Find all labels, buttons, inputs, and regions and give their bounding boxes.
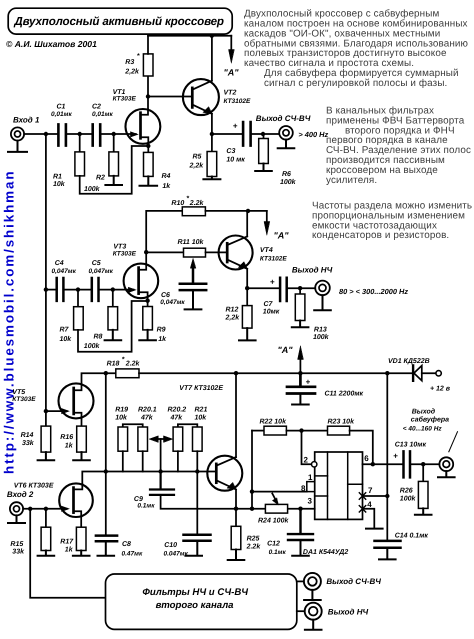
svg-text:10k: 10k: [115, 413, 128, 421]
input connector Вход 2: [7, 490, 34, 515]
svg-text:C12: C12: [267, 540, 280, 547]
wire VT3 drain to R11: [146, 251, 183, 253]
wire R11 to VT4 base: [206, 251, 226, 253]
output connector Выход СЧ-ВЧ: [256, 114, 329, 140]
svg-text:6: 6: [364, 454, 369, 463]
supply rail bottom: [139, 372, 413, 374]
wire pin8 to R22 drop: [252, 491, 307, 493]
resistor R7: [60, 290, 84, 343]
capacitor C14: [375, 533, 429, 548]
svg-text:7: 7: [368, 486, 373, 495]
transistor VT7: [207, 456, 242, 491]
ground under R26: [415, 508, 432, 514]
pin 4 power: [359, 500, 374, 528]
ground under R8: [105, 330, 122, 340]
svg-text:0,01мк: 0,01мк: [92, 111, 113, 118]
svg-text:C5: C5: [92, 260, 101, 267]
svg-text:+: +: [306, 378, 311, 387]
svg-text:C6: C6: [161, 292, 170, 299]
ground under сабвуфер: [438, 471, 455, 477]
transistor VT6: [14, 482, 93, 517]
potentiometer R24: [258, 494, 289, 525]
resistor R4: [144, 152, 172, 189]
svg-text:C3: C3: [226, 148, 235, 155]
svg-text:47k: 47k: [170, 413, 184, 421]
svg-text:R11 10k: R11 10k: [178, 238, 205, 246]
node R26 top: [421, 462, 425, 466]
svg-text:2.2k: 2.2k: [189, 199, 205, 207]
ground under input 1: [8, 141, 27, 152]
svg-text:Двухполосный активный кроссове: Двухполосный активный кроссовер: [13, 15, 224, 28]
wire base to VT7: [197, 471, 216, 473]
resistor R2: [84, 134, 119, 193]
svg-text:1: 1: [308, 473, 313, 482]
ground under R15: [38, 551, 55, 556]
node VT7 collector rail: [234, 371, 238, 375]
node A flag mid: [264, 211, 289, 240]
svg-text:R21: R21: [195, 407, 208, 414]
node pin6 feedback: [371, 462, 375, 466]
resistor R22: [252, 418, 287, 435]
svg-text:R12: R12: [226, 307, 239, 314]
resistor R13: [295, 288, 329, 341]
svg-text:сабвуфера: сабвуфера: [411, 416, 449, 424]
svg-text:C4: C4: [55, 260, 64, 267]
pin 7 power: [359, 486, 387, 499]
resistor R18: [107, 357, 141, 378]
svg-text:2.2k: 2.2k: [246, 542, 262, 550]
wiper double arrow R20: [149, 436, 172, 472]
capacitor C1: [51, 104, 72, 146]
transistor VT1: [113, 89, 161, 144]
resistor R3: [124, 36, 153, 97]
svg-text:VT7 КТ3102Е: VT7 КТ3102Е: [179, 385, 223, 392]
node R8 top: [111, 287, 115, 291]
svg-text:R4: R4: [162, 173, 171, 180]
label VT7: [179, 385, 223, 392]
node pin7: [385, 494, 389, 498]
wire input1 to C1: [24, 133, 57, 135]
svg-text:Выход НЧ: Выход НЧ: [328, 608, 369, 617]
svg-text:C1: C1: [57, 104, 66, 111]
svg-text:© А.И. Шихатов 2001: © А.И. Шихатов 2001: [6, 39, 97, 49]
wire VT5 source down: [81, 419, 83, 427]
node VT3 drain: [144, 250, 148, 254]
node stage2 branch: [44, 287, 48, 291]
input connector Вход 1: [11, 116, 40, 141]
svg-text:"А": "А": [224, 68, 240, 78]
svg-text:2: 2: [304, 456, 309, 465]
svg-text:1k: 1k: [65, 442, 74, 450]
node VT7 emitter: [234, 507, 238, 511]
svg-text:2,2k: 2,2k: [225, 313, 241, 321]
diode VD1: [388, 358, 436, 381]
svg-text:1k: 1k: [162, 182, 171, 190]
wire VT1 drain to VT2 base: [148, 96, 191, 98]
pins 1 8 strap: [301, 473, 315, 493]
wire R20.2 bottom: [177, 451, 179, 471]
svg-text:Выход: Выход: [412, 408, 436, 416]
wire input1 down to stage2: [45, 134, 47, 290]
node VT4 collector: [246, 209, 250, 213]
pin 6 output wire: [363, 454, 402, 464]
svg-text:0,01мк: 0,01мк: [51, 111, 72, 118]
ground under R9: [139, 330, 156, 340]
wire stage2 input: [46, 289, 56, 291]
wire VT2 collector up: [211, 36, 213, 81]
svg-text:Выход СЧ-ВЧ: Выход СЧ-ВЧ: [326, 577, 381, 586]
node VT2 collector top: [210, 34, 214, 38]
wire VT4 collector up: [246, 211, 248, 237]
svg-text:R17: R17: [60, 539, 74, 546]
svg-text:0.1мк: 0.1мк: [137, 503, 155, 510]
svg-text:R6: R6: [282, 171, 291, 178]
resistor R26: [400, 464, 428, 508]
wire R22 left drop: [251, 431, 253, 509]
svg-text:R23 10k: R23 10k: [328, 418, 356, 426]
svg-text:100k: 100k: [84, 185, 101, 193]
resistor R6: [259, 134, 297, 186]
svg-text:Выход СЧ-ВЧ: Выход СЧ-ВЧ: [256, 114, 311, 123]
node VT1 drain: [146, 94, 150, 98]
node VT1 source: [146, 144, 150, 148]
svg-text:2,2k: 2,2k: [189, 161, 205, 169]
node R2 top: [112, 132, 116, 136]
svg-text:КТ303Е: КТ303Е: [12, 396, 36, 403]
resistor R20.2: [168, 407, 198, 452]
resistor R23: [328, 418, 356, 435]
ground under R25: [228, 550, 245, 561]
svg-text:R18: R18: [107, 361, 120, 368]
svg-text:КТ3102Е: КТ3102Е: [260, 255, 288, 262]
svg-text:КТ303Е: КТ303Е: [113, 96, 137, 103]
ground under pin 4: [366, 528, 383, 530]
resistor R14: [21, 411, 51, 452]
wire VT7 emitter down: [235, 490, 237, 509]
svg-text:10 мк: 10 мк: [226, 157, 245, 164]
node A flag top: [224, 36, 240, 78]
wire C3 to output: [252, 133, 279, 135]
svg-text:VD1 КД522В: VD1 КД522В: [388, 358, 430, 365]
svg-text:R8: R8: [94, 334, 103, 341]
node R7 top: [76, 287, 80, 291]
wire input1 down to VT5 gate: [45, 290, 47, 412]
svg-text:VT2: VT2: [224, 90, 237, 97]
svg-text:100k: 100k: [313, 333, 330, 341]
copyright: [6, 39, 97, 49]
resistor R20.1: [138, 407, 157, 452]
transistor VT5: [12, 383, 93, 418]
wire C5 to VT3 gate: [100, 287, 136, 292]
box output connector НЧ: [297, 603, 369, 620]
svg-text:C11 2200мк: C11 2200мк: [325, 390, 364, 397]
op-amp DA1: [303, 452, 363, 556]
ground under R17: [73, 551, 90, 556]
svg-text:> 400 Hz: > 400 Hz: [298, 130, 328, 139]
ground under R13: [292, 321, 309, 328]
wire R20.1 bottom: [142, 451, 144, 471]
ground under input 2: [8, 515, 25, 523]
wire gate to VT5: [46, 409, 69, 414]
svg-text:< 40...160 Hz: < 40...160 Hz: [403, 426, 443, 433]
svg-text:+ 12 в: + 12 в: [430, 386, 451, 393]
svg-text:второго канала: второго канала: [156, 600, 235, 611]
wire R21 bottom to VT7 base: [196, 451, 198, 471]
wire input2 to VT6 gate: [23, 506, 69, 511]
resistor R17: [60, 527, 86, 553]
resistor R19: [115, 407, 143, 452]
svg-text:0,047мк: 0,047мк: [52, 268, 77, 275]
node R24 right: [298, 507, 302, 511]
ground under C6: [185, 291, 202, 309]
ground under R12: [239, 328, 256, 340]
capacitor C13: [393, 441, 426, 477]
node R22-pin8: [250, 489, 254, 493]
wire R7 feedback to VT3 source: [78, 301, 148, 352]
svg-text:"А": "А": [278, 345, 294, 355]
svg-text:C10: C10: [164, 542, 177, 549]
wire VT3 source down: [147, 298, 149, 306]
ground under box СЧ-ВЧ: [304, 590, 321, 600]
wire C8 from branch: [105, 472, 107, 536]
svg-text:Выход НЧ: Выход НЧ: [292, 265, 333, 274]
svg-text:R16: R16: [60, 434, 73, 441]
ground under R2: [105, 176, 122, 185]
node R22-bus: [250, 507, 254, 511]
wire VT6 source down: [80, 517, 82, 528]
wire VT3 drain to R10: [146, 211, 182, 252]
capacitor C6: [160, 259, 206, 306]
svg-text:80 > < 300...2000 Hz: 80 > < 300...2000 Hz: [339, 287, 408, 296]
wire VT2 emitter to C3: [212, 133, 242, 135]
supply rail top: [148, 35, 231, 37]
wire C1 to C2: [67, 133, 91, 135]
node input2 branch: [28, 507, 32, 511]
svg-text:R22 10k: R22 10k: [260, 418, 288, 426]
svg-text:1k: 1k: [65, 545, 74, 553]
svg-text:10k: 10k: [60, 335, 73, 343]
wire C9 bottom to sum bus: [161, 495, 236, 509]
svg-text:100k: 100k: [84, 342, 101, 350]
wire VT1 source down: [147, 144, 149, 153]
svg-text:R25: R25: [247, 536, 260, 543]
wire C4 to C5: [65, 289, 91, 291]
svg-text:+: +: [270, 277, 275, 286]
wire R21 node down to C10: [196, 472, 198, 535]
capacitor C9: [134, 472, 174, 510]
ground under R5: [203, 177, 220, 180]
wire VT4 emitter to C7: [247, 287, 278, 289]
svg-text:0.47мк: 0.47мк: [122, 550, 143, 557]
svg-text:R20.2: R20.2: [168, 407, 187, 414]
ground under C10: [185, 542, 202, 556]
svg-text:10мк: 10мк: [263, 308, 280, 315]
capacitor C8: [96, 536, 143, 558]
wire network bus: [106, 471, 198, 473]
resistor R1: [53, 134, 85, 188]
resistor R9: [143, 307, 167, 344]
output connector сабвуфер: [403, 408, 458, 471]
node R15 top: [44, 507, 48, 511]
wire junction down to pin2: [302, 431, 312, 465]
svg-text:33k: 33k: [22, 439, 35, 447]
transistor VT3: [113, 244, 158, 299]
wire R23 to output pin6: [350, 431, 373, 465]
ground under box НЧ: [305, 620, 322, 630]
transistor VT4: [219, 236, 288, 270]
resistor R11: [178, 238, 206, 257]
url text: [2, 170, 17, 474]
svg-text:R2: R2: [96, 175, 105, 182]
node R13 top: [298, 286, 302, 290]
node VT4 emitter: [245, 286, 249, 290]
svg-text:R15: R15: [10, 541, 23, 548]
svg-text:C2: C2: [92, 104, 101, 111]
resistor R16: [60, 426, 86, 452]
svg-text:R3: R3: [125, 59, 134, 66]
svg-text:0,047мк: 0,047мк: [160, 299, 185, 306]
capacitor C10: [164, 535, 211, 558]
wire C13 to output: [411, 463, 439, 465]
svg-text:R1: R1: [53, 173, 62, 180]
node R1 top: [78, 132, 82, 136]
svg-text:КТ303Е: КТ303Е: [113, 250, 137, 257]
wire VT1 drain up: [147, 97, 149, 110]
capacitor C5: [89, 260, 114, 301]
svg-text:VT4: VT4: [260, 247, 273, 254]
svg-text:R20.1: R20.1: [138, 407, 157, 414]
ground under C11: [292, 395, 309, 405]
ground under C12: [292, 541, 309, 556]
resistor R5: [189, 134, 217, 177]
svg-text:R9: R9: [157, 327, 166, 334]
wire R19 bottom: [122, 451, 124, 471]
svg-text:Фильтры НЧ и СЧ-ВЧ: Фильтры НЧ и СЧ-ВЧ: [142, 587, 248, 598]
svg-text:2.2k: 2.2k: [125, 360, 141, 368]
svg-text:*: *: [137, 53, 140, 60]
svg-text:3: 3: [308, 496, 313, 505]
svg-text:конденсаторов и резисторов.: конденсаторов и резисторов.: [312, 230, 449, 241]
svg-text:C7: C7: [264, 301, 274, 308]
svg-text:C13 10мк: C13 10мк: [395, 441, 427, 448]
ground under R4: [140, 176, 158, 185]
node bus left: [104, 469, 108, 473]
svg-text:+: +: [233, 121, 238, 130]
box output connector СЧ-ВЧ: [297, 573, 381, 590]
wire branch down to R19 network: [105, 373, 107, 471]
ground under output СЧ-ВЧ: [278, 140, 295, 149]
svg-text:C8: C8: [122, 541, 131, 548]
capacitor C12: [267, 509, 313, 556]
svg-text:2,2k: 2,2k: [124, 68, 140, 76]
svg-text:C14 0.1мк: C14 0.1мк: [395, 533, 429, 540]
svg-text:*: *: [122, 357, 125, 364]
svg-text:сигнал с регулировкой полосы и: сигнал с регулировкой полосы и фазы.: [264, 78, 447, 89]
svg-text:усилителя.: усилителя.: [326, 175, 377, 186]
capacitor C4: [52, 260, 77, 301]
svg-text:R24 100k: R24 100k: [258, 517, 289, 525]
svg-text:R19: R19: [115, 407, 128, 414]
node C11 top: [298, 371, 302, 375]
ground under R16: [73, 452, 90, 460]
resistor R15: [10, 509, 50, 556]
svg-text:R14: R14: [21, 432, 34, 439]
svg-text:R26: R26: [400, 487, 413, 494]
svg-text:4: 4: [367, 500, 372, 509]
wire sum bus to pin3: [236, 508, 315, 510]
resistor R10: [171, 196, 205, 216]
wire VT4 emitter down: [246, 269, 248, 288]
node A flag supply: [278, 345, 304, 373]
svg-text:100k: 100k: [280, 178, 297, 186]
output connector Выход НЧ: [292, 265, 408, 296]
node pin7 rail: [385, 371, 389, 375]
node VT2 emitter: [210, 132, 214, 136]
svg-text:33k: 33k: [12, 547, 25, 555]
node J1: [44, 132, 48, 136]
ground under R14: [38, 452, 55, 460]
ground under output НЧ: [314, 295, 331, 310]
wire C2 to VT1 gate: [102, 132, 138, 137]
capacitor C7: [263, 277, 287, 315]
wire input2 down to filter box: [30, 509, 105, 598]
wire R1 feedback to VT1 source: [80, 146, 148, 194]
resistor R12: [225, 288, 253, 328]
ground under C14: [379, 549, 396, 559]
description text: [244, 9, 472, 242]
resistor R8: [84, 290, 118, 351]
resistor R25: [231, 509, 261, 551]
svg-text:10k: 10k: [195, 413, 208, 421]
node bus VT7 base: [195, 469, 199, 473]
svg-text:VT5: VT5: [12, 389, 25, 396]
svg-text:R13: R13: [314, 326, 327, 333]
node rail-R19branch: [104, 371, 108, 375]
wire rail down to pin7 and C14: [386, 373, 388, 540]
svg-text:VT6 КТ303Е: VT6 КТ303Е: [14, 482, 54, 489]
wire VT2 emitter down: [211, 114, 213, 134]
svg-text:http://www.bluesmobil.com/shik: http://www.bluesmobil.com/shikhman: [2, 170, 17, 474]
svg-text:R5: R5: [193, 154, 202, 161]
filter box second channel: [106, 574, 297, 629]
svg-text:+: +: [393, 452, 398, 461]
ground under C8: [98, 543, 115, 556]
svg-text:0,047мк: 0,047мк: [89, 268, 114, 275]
node VT3 source: [145, 299, 149, 303]
svg-text:"А": "А": [274, 230, 290, 240]
node R22R23: [299, 428, 303, 432]
wire VT6 drain up: [82, 472, 106, 485]
transistor VT2: [183, 79, 251, 115]
capacitor C11: [287, 373, 364, 397]
title box: [8, 8, 232, 34]
pin 2 bubble: [304, 456, 317, 467]
svg-text:Вход 2: Вход 2: [7, 490, 34, 499]
resistor R21: [193, 407, 208, 452]
wire R10 to VT4 collector node: [205, 210, 266, 212]
wire C7 to output НЧ: [288, 287, 315, 289]
capacitor C2: [92, 104, 113, 146]
svg-text:R7: R7: [60, 327, 70, 334]
capacitor C3: [226, 121, 250, 163]
svg-text:КТ3102Е: КТ3102Е: [224, 98, 252, 105]
terminal +12v: [430, 371, 451, 393]
wire VT7 collector up to rail: [235, 373, 237, 457]
ground under R6: [255, 164, 272, 172]
svg-text:R10: R10: [171, 200, 184, 207]
pin 3 label: [308, 496, 313, 505]
svg-text:Вход 1: Вход 1: [13, 116, 40, 125]
